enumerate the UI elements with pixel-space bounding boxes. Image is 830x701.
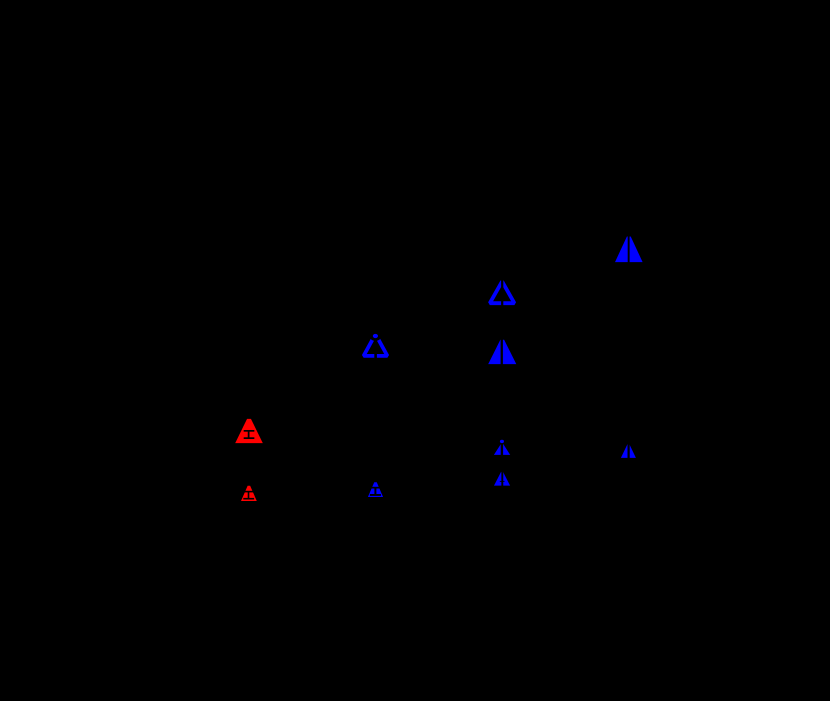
marker M4: large filled blue triangle, col3 xyxy=(488,334,516,368)
marker M5: large filled red triangle with I errorbar, col1 xyxy=(235,419,263,443)
marker M3: large open blue triangle with ringed dot above, col2 xyxy=(364,329,388,359)
marker M9: small filled blue triangle with capped errorbar, col2 xyxy=(368,482,383,497)
marker M10: small filled red triangle with capped errorbar, col1 xyxy=(241,486,257,501)
marker M6: small filled blue triangle with dot above, col3 xyxy=(494,439,510,457)
marker M8: small filled blue triangle with short cap, col3 xyxy=(494,470,510,488)
marker M1: large filled blue triangle, col4 xyxy=(615,230,643,268)
marker M2: large open blue triangle, col3 xyxy=(490,274,515,308)
marker M7: small filled blue triangle, col4 xyxy=(621,442,636,460)
